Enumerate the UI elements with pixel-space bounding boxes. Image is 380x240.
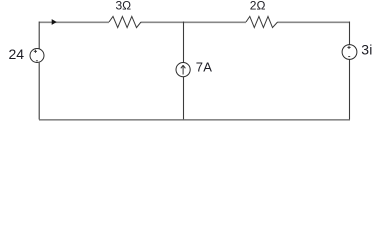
svg-text:7: 7 [196, 60, 203, 75]
svg-text:2Ω: 2Ω [250, 0, 266, 13]
svg-text:A: A [203, 60, 212, 75]
svg-text:i: i [369, 41, 372, 57]
svg-text:3: 3 [361, 41, 369, 57]
svg-text:3Ω: 3Ω [116, 0, 132, 13]
svg-text:24: 24 [9, 46, 25, 62]
